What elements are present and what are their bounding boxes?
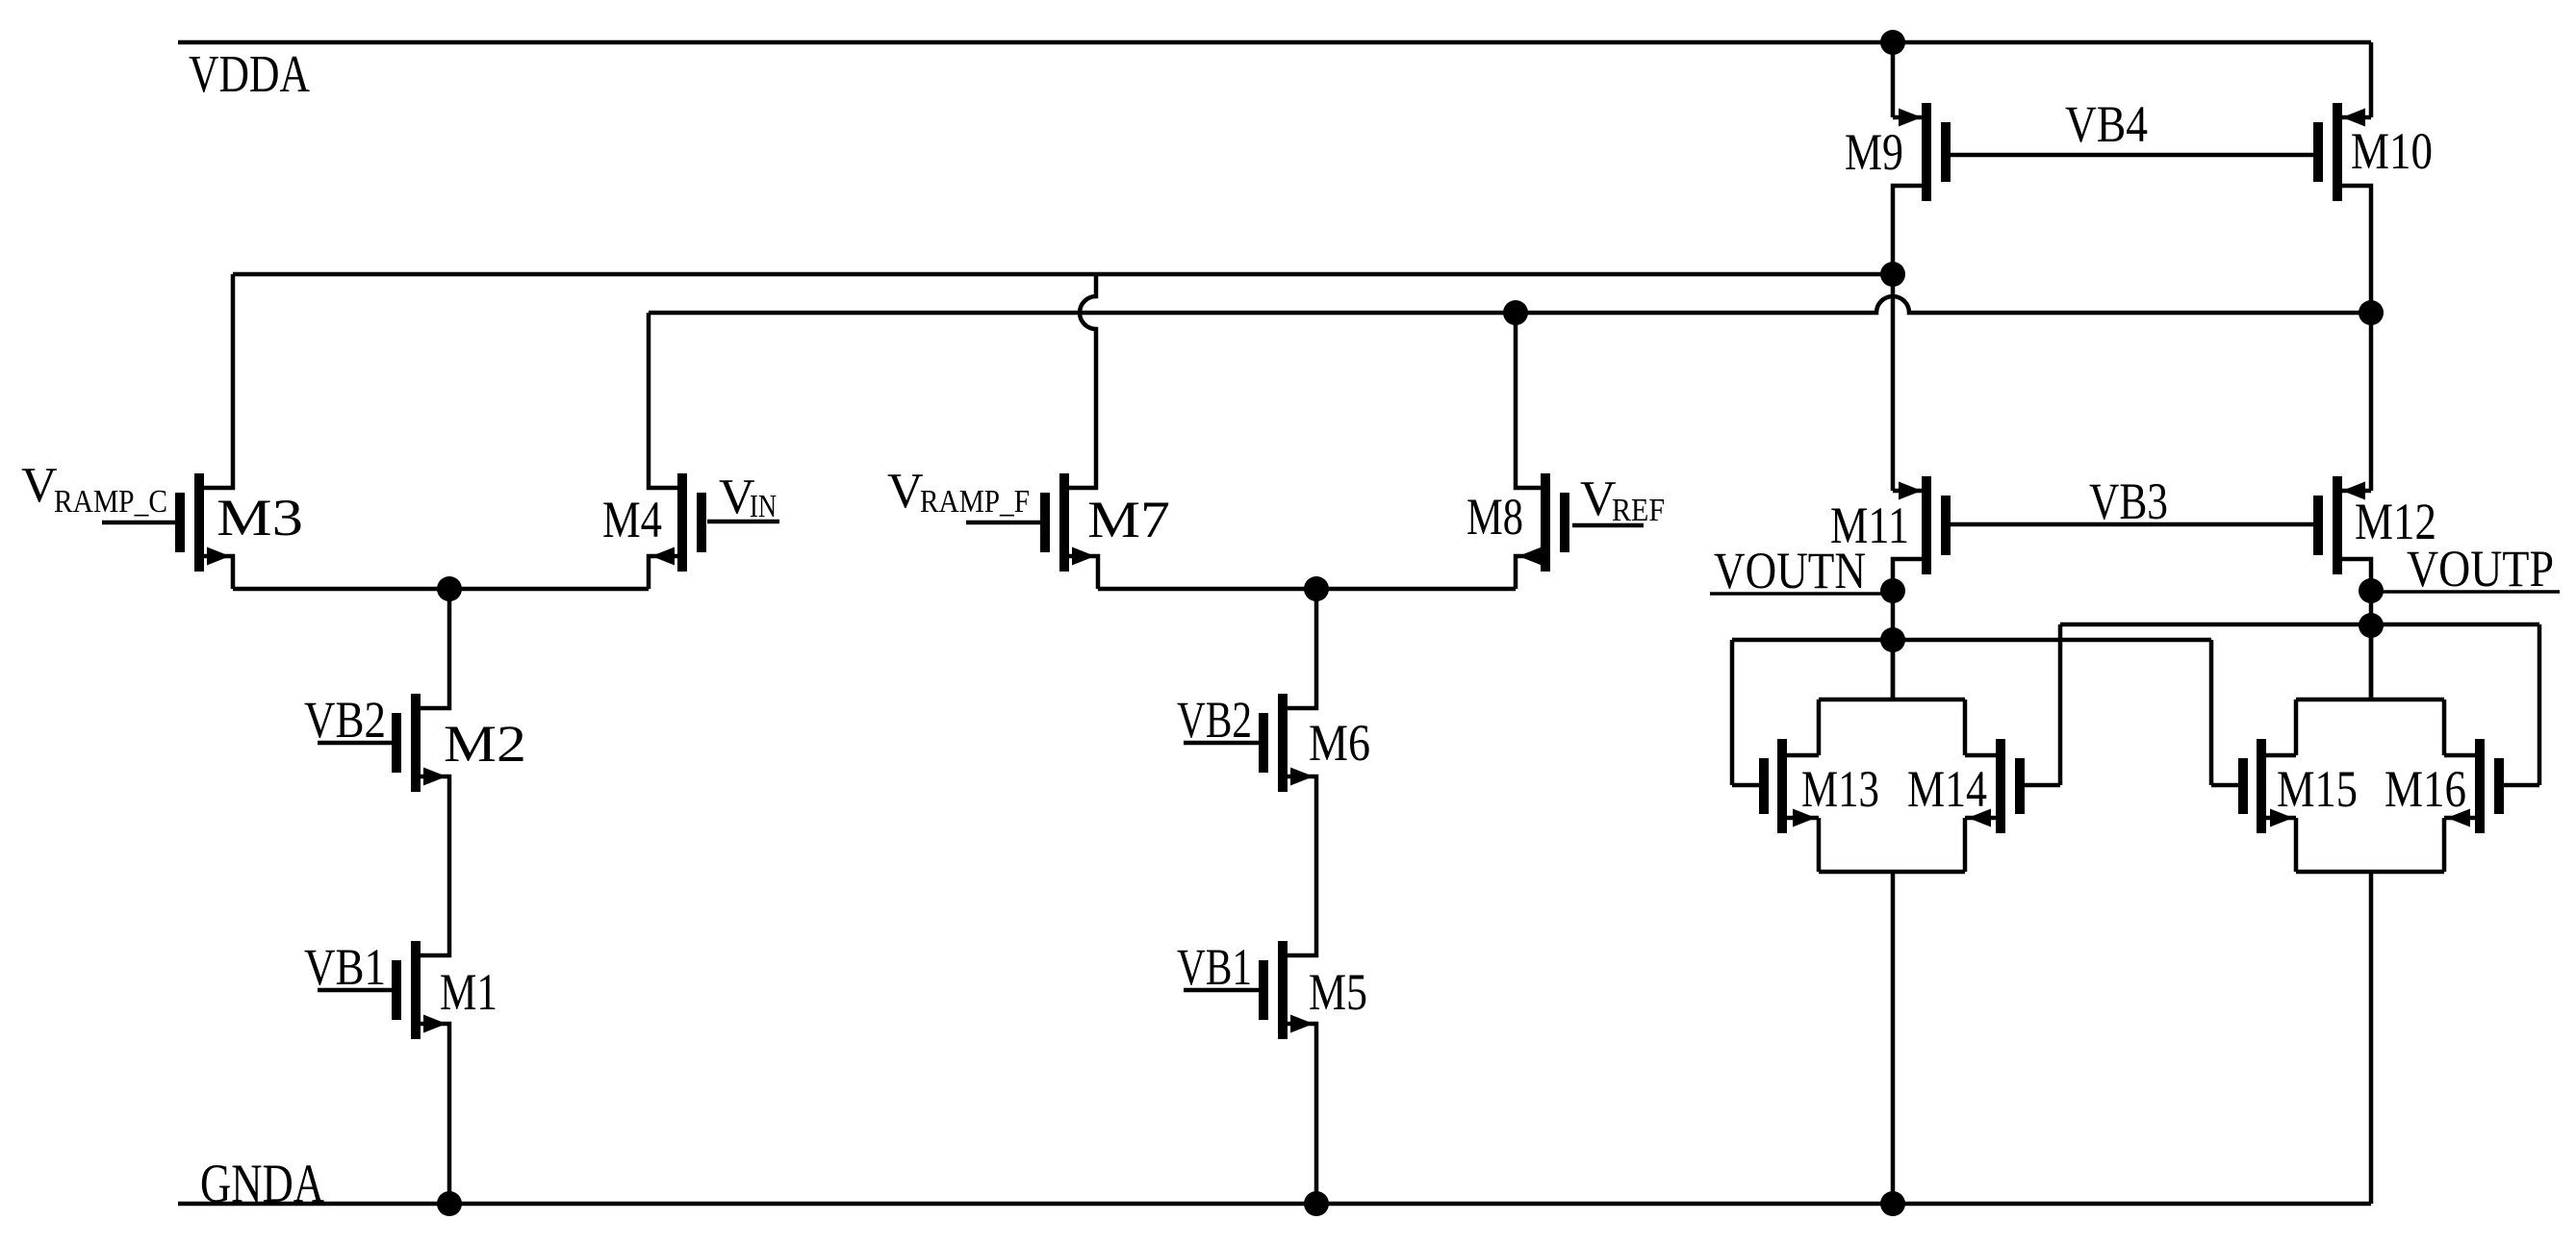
transistor M2 channel bar — [411, 694, 421, 792]
wire VOUTN stem down to H top — [1891, 640, 1896, 699]
node VOUTN junction dot — [1880, 578, 1905, 603]
transistor M10 channel bar — [2333, 103, 2342, 201]
svg-text:M10: M10 — [2351, 122, 2433, 180]
wire M9 drain down to M11 — [1891, 274, 1896, 491]
wire VB2 to M6 gate — [1184, 741, 1259, 746]
wire right H bottom bus — [2296, 870, 2444, 875]
transistor M16 gate bar — [2494, 758, 2504, 814]
svg-text:M4: M4 — [602, 491, 662, 548]
wire tail bus of M7/M8 — [1098, 587, 1516, 592]
transistor M1 source arrow — [423, 1015, 446, 1033]
transistor M7 gate bar — [1040, 493, 1050, 552]
svg-text:M6: M6 — [1309, 714, 1370, 772]
svg-text:M5: M5 — [1309, 963, 1367, 1021]
transistor M5 channel bar — [1278, 941, 1288, 1039]
transistor M12 source arrow — [2342, 482, 2365, 500]
wire VB3 (M11 gate to M12 gate) — [1951, 522, 2313, 527]
transistor M12 drain wire — [2342, 559, 2371, 699]
svg-text:VB2: VB2 — [304, 691, 386, 749]
transistor M7 source wire — [1069, 556, 1098, 589]
wire left H stem down to GNDA — [1891, 872, 1896, 1204]
svg-text:VB1: VB1 — [1177, 938, 1252, 996]
node VDDA-M9 junction dot — [1880, 30, 1905, 55]
wire VOUTP stem down to H top — [2369, 625, 2374, 699]
svg-text:VB1: VB1 — [304, 938, 386, 996]
node M8 drain on lower bus junction dot — [1503, 300, 1528, 325]
transistor M3 gate bar — [175, 493, 185, 552]
transistor M12 source wire — [2342, 489, 2371, 494]
wire riser M14 gate — [2058, 624, 2063, 785]
transistor M4 channel bar — [677, 473, 687, 572]
svg-text:M2: M2 — [444, 715, 526, 773]
svg-text:M1: M1 — [440, 963, 497, 1021]
transistor M8 source arrow — [1518, 547, 1542, 566]
svg-text:VOUTP: VOUTP — [2407, 540, 2554, 598]
transistor M1 source wire — [421, 1024, 449, 1204]
wire M14 gate lead — [2025, 783, 2060, 788]
transistor M3 source wire — [204, 556, 233, 589]
transistor M16 drain wire — [2444, 753, 2475, 758]
transistor M15 drain wire — [2266, 753, 2296, 758]
transistor M11 source arrow — [1899, 482, 1922, 500]
transistor M6 source wire — [1288, 776, 1316, 955]
svg-text:IN: IN — [750, 489, 777, 524]
svg-text:REF: REF — [1612, 493, 1665, 528]
svg-text:M3: M3 — [217, 489, 303, 547]
transistor M14 gate bar — [2015, 758, 2025, 814]
wire left H bottom-right vertical — [1963, 818, 1968, 872]
wire M13 gate lead — [1732, 783, 1759, 788]
transistor M15 gate bar — [2238, 758, 2248, 814]
svg-text:M9: M9 — [1845, 123, 1903, 181]
wire left H bottom bus — [1819, 870, 1965, 875]
wire cross line A (VOUTN to M13/M15 gates) — [1732, 638, 2211, 643]
wire right H top-left vertical — [2294, 699, 2299, 755]
wire VRAMP_C to M3 gate — [102, 521, 175, 525]
transistor M2 source arrow — [423, 768, 446, 786]
wire VDDA down to M9 source — [1891, 42, 1896, 117]
wire tail bus of M3/M4 — [233, 587, 649, 592]
transistor M8 gate bar — [1560, 493, 1569, 552]
transistor M3 source arrow — [207, 547, 230, 566]
wire M10 drain down to M12 — [2369, 313, 2374, 491]
transistor M9 source arrow — [1899, 109, 1922, 127]
transistor M2 gate bar — [392, 713, 401, 773]
transistor M15 source arrow — [2270, 809, 2293, 827]
transistor M1 gate bar — [392, 960, 401, 1020]
svg-text:VB3: VB3 — [2089, 472, 2168, 530]
transistor M13 drain wire — [1787, 753, 1819, 758]
transistor M16 source arrow — [2447, 809, 2470, 827]
transistor M12 channel bar — [2333, 476, 2342, 574]
node GNDA-M5 junction dot — [1304, 1191, 1329, 1216]
node cross line B to VOUTP junction dot — [2359, 613, 2384, 638]
transistor M6 source arrow — [1290, 768, 1314, 786]
node tail2 junction dot — [1304, 576, 1329, 601]
wire left H top-right vertical — [1963, 699, 1968, 755]
wire left H top bus — [1819, 698, 1965, 702]
transistor M11 drain wire — [1893, 559, 1922, 699]
transistor M4 source arrow — [651, 547, 675, 566]
wire cross line B (VOUTP to M14/M16 gates) — [2060, 623, 2539, 627]
transistor M6 gate bar — [1259, 713, 1268, 773]
transistor M13 source arrow — [1793, 809, 1816, 827]
svg-text:V: V — [887, 464, 924, 519]
wire riser M15 gate — [2209, 640, 2214, 785]
wire VB1 to M1 gate — [318, 988, 392, 993]
ground rail GNDA — [178, 1202, 2371, 1207]
node upper bus to M9/M11 junction dot — [1880, 262, 1905, 287]
wire upper bus (M3/M7 drains to M9-M11 node) — [233, 272, 1893, 277]
transistor M9 gate bar — [1941, 122, 1951, 182]
svg-text:M13: M13 — [1801, 760, 1879, 818]
transistor M3 channel bar — [194, 473, 204, 572]
wire left H bottom-left vertical — [1817, 818, 1822, 872]
transistor M4 gate bar — [697, 493, 706, 552]
transistor M5 source arrow — [1290, 1015, 1314, 1033]
node VOUTP junction dot — [2359, 578, 2384, 603]
wire riser M16 gate — [2538, 624, 2542, 785]
svg-text:RAMP_F: RAMP_F — [920, 484, 1030, 520]
svg-text:GNDA: GNDA — [200, 1154, 324, 1214]
power rail VDDA — [178, 40, 2371, 45]
svg-text:V: V — [21, 458, 58, 513]
transistor M13 channel bar — [1777, 739, 1787, 833]
node GNDA-left-H junction dot — [1880, 1191, 1905, 1216]
wire riser M13 gate — [1730, 640, 1735, 785]
wire M8 gate to VREF — [1572, 523, 1644, 528]
transistor M10 source arrow — [2342, 109, 2365, 127]
svg-text:V: V — [1580, 471, 1617, 526]
transistor M3 drain wire — [204, 274, 233, 488]
transistor M10 gate bar — [2313, 122, 2323, 182]
transistor M14 channel bar — [1996, 739, 2005, 833]
transistor M11 gate bar — [1941, 496, 1951, 555]
wire tail2 down to M6 drain — [1288, 589, 1316, 708]
transistor M9 source wire — [1893, 115, 1922, 120]
wire right H top-right vertical — [2442, 699, 2447, 755]
transistor M2 source wire — [421, 776, 449, 955]
transistor M14 source wire — [1965, 816, 1996, 821]
transistor M10 drain wire — [2342, 186, 2371, 313]
svg-text:RAMP_C: RAMP_C — [54, 484, 167, 520]
transistor M8 channel bar — [1541, 473, 1550, 572]
transistor M4 drain wire — [649, 313, 677, 488]
node lower bus to M10/M12 junction dot — [2359, 300, 2384, 325]
wire VRAMP_F to M7 gate — [966, 521, 1040, 525]
transistor M14 drain wire — [1965, 753, 1996, 758]
transistor M10 source wire — [2342, 115, 2371, 120]
transistor M11 source wire — [1893, 489, 1922, 494]
transistor M7 drain wire with hop over lower bus — [1069, 274, 1096, 488]
transistor M1 channel bar — [411, 941, 421, 1039]
wire right H bottom-left vertical — [2294, 818, 2299, 872]
transistor M11 channel bar — [1922, 476, 1931, 574]
wire VDDA corner down to M10 source — [2369, 42, 2374, 117]
transistor M6 channel bar — [1278, 694, 1288, 792]
wire left H top-left vertical — [1817, 699, 1822, 755]
wire M16 gate lead — [2504, 783, 2539, 788]
transistor M8 source wire — [1516, 556, 1541, 589]
transistor M8 drain wire — [1516, 313, 1541, 488]
transistor M12 gate bar — [2313, 496, 2323, 555]
transistor M7 channel bar — [1059, 473, 1069, 572]
node cross line A to VOUTN junction dot — [1880, 627, 1905, 652]
svg-text:VB4: VB4 — [2065, 95, 2148, 153]
wire right H stem down to GNDA — [2369, 872, 2374, 1204]
transistor M16 channel bar — [2475, 739, 2485, 833]
transistor M13 gate bar — [1759, 758, 1769, 814]
wire right H bottom-right vertical — [2442, 818, 2447, 872]
transistor M14 source arrow — [1968, 809, 1991, 827]
wire VB1 to M5 gate — [1184, 988, 1259, 993]
transistor M15 channel bar — [2257, 739, 2266, 833]
transistor M13 source wire — [1787, 816, 1819, 821]
transistor M4 source wire — [649, 556, 677, 589]
transistor M9 drain wire — [1893, 186, 1922, 274]
wire VB4 (M9 gate to M10 gate) — [1951, 153, 2313, 158]
wire lower bus (M4/M8 drains to M10-M12 node) with hop over M9 column — [649, 296, 2371, 313]
svg-text:M8: M8 — [1467, 488, 1523, 546]
wire VOUTP underline lead — [2371, 590, 2560, 594]
wire tail1 down to M2 drain — [421, 589, 449, 708]
transistor M9 channel bar — [1922, 103, 1931, 201]
transistor M5 source wire — [1288, 1024, 1316, 1204]
svg-text:M15: M15 — [2277, 760, 2358, 818]
wire M15 gate lead — [2211, 783, 2238, 788]
node tail1 junction dot — [437, 576, 462, 601]
transistor M15 source wire — [2266, 816, 2296, 821]
svg-text:M14: M14 — [1907, 760, 1987, 818]
transistor M7 source arrow — [1072, 547, 1095, 566]
svg-text:VOUTN: VOUTN — [1714, 542, 1866, 599]
node GNDA-M1 junction dot — [437, 1191, 462, 1216]
wire M4 gate to VIN — [707, 520, 779, 524]
svg-text:VB2: VB2 — [1177, 691, 1252, 749]
wire VOUTN underline lead — [1710, 592, 1893, 596]
svg-text:VDDA: VDDA — [189, 44, 310, 103]
wire right H top bus — [2296, 698, 2444, 702]
transistor M16 source wire — [2444, 816, 2475, 821]
svg-text:M16: M16 — [2385, 760, 2466, 818]
svg-text:M7: M7 — [1087, 491, 1170, 548]
wire VB2 to M2 gate — [318, 741, 392, 746]
transistor M5 gate bar — [1259, 960, 1268, 1020]
